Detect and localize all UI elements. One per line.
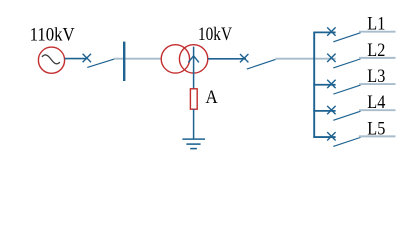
disconnector QS2 [240, 54, 276, 69]
svg-text:10kV: 10kV [198, 25, 233, 45]
feeder L5 wire [313, 136, 335, 138]
wire: T1 to QS2 [208, 58, 246, 60]
feeder L3 disconnector [327, 80, 360, 94]
svg-text:110kV: 110kV [30, 26, 76, 46]
source G1 (110kV system) [38, 47, 64, 73]
feeder L1 disconnector [327, 27, 360, 41]
T1 wye winding and neutral wire [188, 47, 199, 89]
transformer T1 [161, 45, 208, 73]
svg-text:L3: L3 [367, 67, 385, 87]
feeder L5 disconnector [327, 132, 360, 146]
busbar 10kV [313, 32, 315, 137]
svg-text:A: A [206, 88, 219, 108]
feeder L3 outgoing wire [359, 83, 396, 85]
svg-text:L4: L4 [367, 93, 385, 113]
wire: source to QS1 [65, 58, 87, 60]
feeder L4 disconnector [327, 106, 360, 120]
disconnector QS1 [83, 54, 115, 68]
svg-text:L1: L1 [367, 15, 385, 35]
feeder L2 outgoing wire [359, 57, 396, 59]
ammeter A (neutral device) [190, 89, 197, 109]
feeder L4 outgoing wire [359, 109, 396, 111]
wire: QS1 to transformer T1 [114, 58, 161, 60]
feeder L1 wire [313, 31, 335, 33]
feeder L2 disconnector [327, 54, 360, 68]
svg-text:L5: L5 [367, 119, 385, 139]
wire: QS2 to 10kV busbar and feeder L2 tap [276, 58, 336, 60]
feeder L1 outgoing wire [359, 31, 396, 33]
feeder L3 wire [313, 84, 335, 86]
wire: ammeter to ground [193, 109, 195, 139]
busbar 110kV [123, 42, 125, 81]
svg-text:L2: L2 [367, 41, 385, 61]
feeder L4 wire [313, 110, 335, 112]
feeder L5 outgoing wire [359, 135, 396, 137]
ground [182, 139, 205, 149]
